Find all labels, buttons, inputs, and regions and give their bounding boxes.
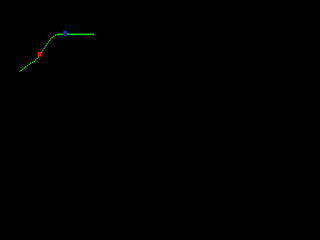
blue marker (64, 31, 67, 36)
curve solid flat tail (57, 33, 95, 36)
curve dotted rising segment (21, 35, 57, 71)
background (0, 0, 94, 95)
curve start faint dot (19, 71, 21, 73)
red marker (38, 52, 42, 57)
sigmoid curve plot (0, 0, 94, 95)
